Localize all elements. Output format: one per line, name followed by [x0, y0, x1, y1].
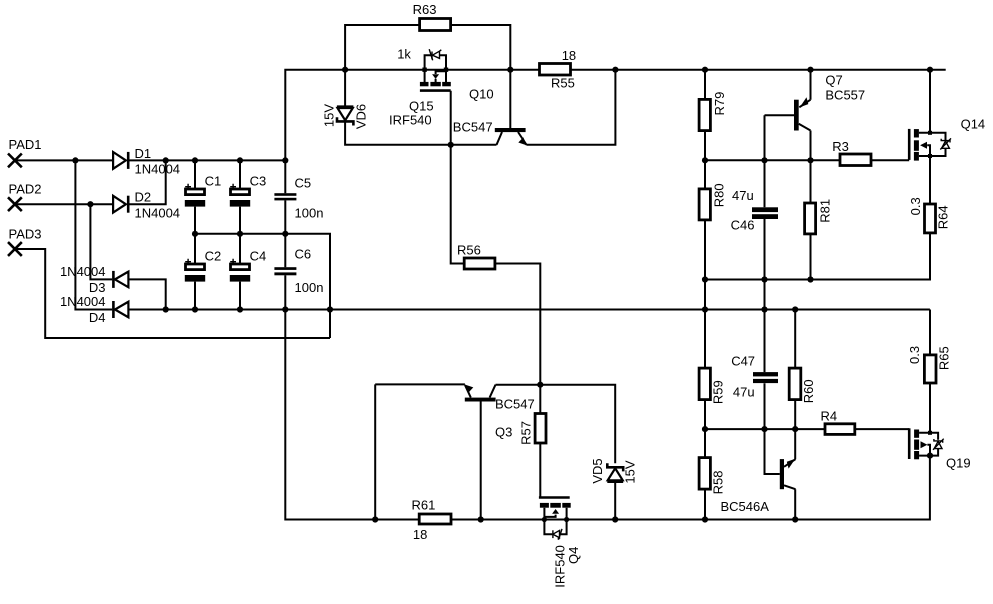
- svg-text:Q3: Q3: [495, 424, 512, 439]
- svg-text:D1: D1: [135, 146, 152, 161]
- svg-text:Q10: Q10: [469, 87, 494, 102]
- svg-text:D3: D3: [89, 280, 106, 295]
- svg-text:15V: 15V: [321, 104, 336, 127]
- svg-text:Q4: Q4: [566, 547, 581, 564]
- svg-text:C1: C1: [205, 174, 222, 189]
- svg-text:PAD2: PAD2: [9, 182, 42, 197]
- svg-text:R55: R55: [551, 76, 575, 91]
- svg-text:R3: R3: [832, 139, 849, 154]
- svg-text:PAD3: PAD3: [9, 227, 42, 242]
- svg-text:R4: R4: [821, 409, 838, 424]
- svg-text:Q14: Q14: [961, 117, 986, 132]
- svg-text:18: 18: [413, 527, 427, 542]
- svg-text:BC557: BC557: [825, 87, 865, 102]
- svg-text:47u: 47u: [733, 385, 755, 400]
- svg-text:D4: D4: [89, 310, 106, 325]
- svg-text:BC547: BC547: [495, 397, 535, 412]
- svg-text:18: 18: [562, 48, 576, 63]
- svg-text:100n: 100n: [295, 206, 324, 221]
- svg-text:PAD1: PAD1: [9, 137, 42, 152]
- svg-text:R58: R58: [710, 470, 725, 494]
- svg-text:C47: C47: [731, 353, 755, 368]
- svg-text:C3: C3: [250, 174, 267, 189]
- svg-text:C4: C4: [250, 249, 267, 264]
- svg-text:R64: R64: [935, 205, 950, 229]
- svg-text:R57: R57: [518, 421, 533, 445]
- svg-text:47u: 47u: [732, 188, 754, 203]
- svg-text:C2: C2: [205, 249, 222, 264]
- svg-text:C6: C6: [295, 246, 312, 261]
- svg-text:R63: R63: [413, 2, 437, 17]
- svg-text:Q15: Q15: [409, 98, 434, 113]
- svg-text:BC546A: BC546A: [721, 499, 770, 514]
- svg-text:15V: 15V: [623, 460, 638, 483]
- svg-text:R65: R65: [937, 346, 952, 370]
- svg-text:Q19: Q19: [946, 455, 971, 470]
- svg-text:1N4004: 1N4004: [60, 294, 106, 309]
- svg-text:1N4004: 1N4004: [60, 264, 106, 279]
- svg-text:C46: C46: [731, 217, 755, 232]
- svg-text:R80: R80: [712, 183, 727, 207]
- svg-text:D2: D2: [135, 190, 152, 205]
- svg-text:1k: 1k: [397, 47, 411, 62]
- svg-text:VD5: VD5: [590, 458, 605, 483]
- svg-text:R56: R56: [457, 242, 481, 257]
- svg-text:100n: 100n: [295, 280, 324, 295]
- svg-text:R59: R59: [710, 380, 725, 404]
- svg-text:Q7: Q7: [825, 72, 842, 87]
- svg-text:R60: R60: [801, 379, 816, 403]
- svg-text:R61: R61: [412, 498, 436, 513]
- svg-text:0.3: 0.3: [907, 346, 922, 364]
- svg-text:VD6: VD6: [354, 104, 369, 129]
- svg-text:R79: R79: [712, 92, 727, 116]
- svg-text:R81: R81: [818, 199, 833, 223]
- svg-text:1N4004: 1N4004: [135, 162, 181, 177]
- svg-text:C5: C5: [295, 176, 312, 191]
- svg-text:1N4004: 1N4004: [135, 205, 181, 220]
- svg-text:IRF540: IRF540: [389, 113, 432, 128]
- svg-text:0.3: 0.3: [908, 197, 923, 215]
- svg-text:BC547: BC547: [453, 120, 493, 135]
